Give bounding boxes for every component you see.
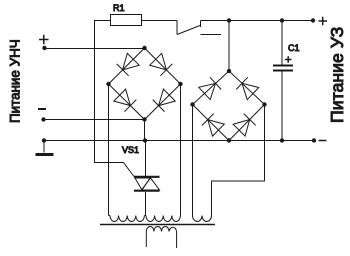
- node bridge2 right: [262, 102, 266, 106]
- node − УНЧ: [41, 117, 45, 121]
- node bridge2 top: [227, 69, 231, 73]
- svg-text:VS1: VS1: [122, 145, 139, 155]
- diode bridge1 bottom-right: [153, 89, 176, 112]
- node bridge1 bottom: [142, 117, 146, 121]
- node bridge2 bottom: [227, 138, 231, 142]
- wire + УНЧ to bridge1 top: [45, 48, 145, 50]
- diode bridge2 bottom-right: [233, 114, 256, 137]
- svg-text:R1: R1: [113, 3, 125, 13]
- node ground terminal: [42, 138, 46, 142]
- node C1 top: [280, 18, 284, 22]
- wire switch to + УЗ: [201, 20, 314, 22]
- switch SA1: [176, 21, 178, 35]
- diode bridge2 top-right: [236, 77, 258, 100]
- bridge 1 frame: [109, 48, 181, 120]
- diode bridge2 top-left: [199, 77, 221, 100]
- wire bridge1 left to winding: [108, 84, 110, 216]
- node − УЗ terminal: [312, 138, 316, 142]
- wire to bridge2 top: [228, 21, 230, 72]
- transformer secondary winding 2: [193, 216, 212, 222]
- wire common rail: [44, 140, 314, 142]
- node + УЗ terminal: [311, 18, 315, 22]
- minus terminal left: [38, 108, 46, 110]
- transformer secondary winding 1b: [146, 216, 180, 222]
- node bridge1 left: [106, 82, 110, 86]
- diode bridge2 bottom-left: [202, 114, 224, 137]
- node + УНЧ: [42, 46, 46, 50]
- transformer primary: [146, 227, 176, 232]
- wire R1 right to switch: [142, 20, 178, 22]
- wire bridge2 right to winding: [212, 105, 265, 216]
- node VS1 anode on rail: [143, 138, 147, 142]
- transformer core: [100, 224, 215, 226]
- svg-text:Питание УЗ: Питание УЗ: [327, 27, 347, 123]
- bridge 2 frame: [193, 71, 265, 141]
- diode bridge1 top-left: [117, 53, 140, 76]
- wire bridge2 left to winding: [192, 105, 194, 216]
- wire primary left lead: [145, 232, 147, 248]
- wire bridge1 right to winding: [180, 84, 182, 216]
- plus terminal right: [319, 17, 328, 25]
- ground: [43, 141, 45, 153]
- transformer secondary winding 1a: [110, 216, 144, 222]
- svg-text:Питание УНЧ: Питание УНЧ: [8, 39, 23, 123]
- node switch output: [227, 18, 231, 22]
- diode bridge1 top-right: [150, 53, 173, 76]
- node bridge1 top: [142, 46, 146, 50]
- node bridge2 left: [190, 102, 194, 106]
- svg-text:C1: C1: [288, 43, 300, 53]
- wire bridge1 bottom to rail: [144, 120, 146, 141]
- node C1 bottom: [280, 138, 284, 142]
- node bridge1 right: [178, 82, 182, 86]
- plus terminal left: [39, 35, 49, 45]
- minus terminal right: [319, 140, 327, 142]
- wire primary right lead: [176, 232, 178, 249]
- wire − УНЧ to bridge1 bottom: [44, 119, 145, 121]
- wire R1 left to gate: [95, 21, 135, 177]
- diode bridge1 bottom-left: [114, 89, 137, 112]
